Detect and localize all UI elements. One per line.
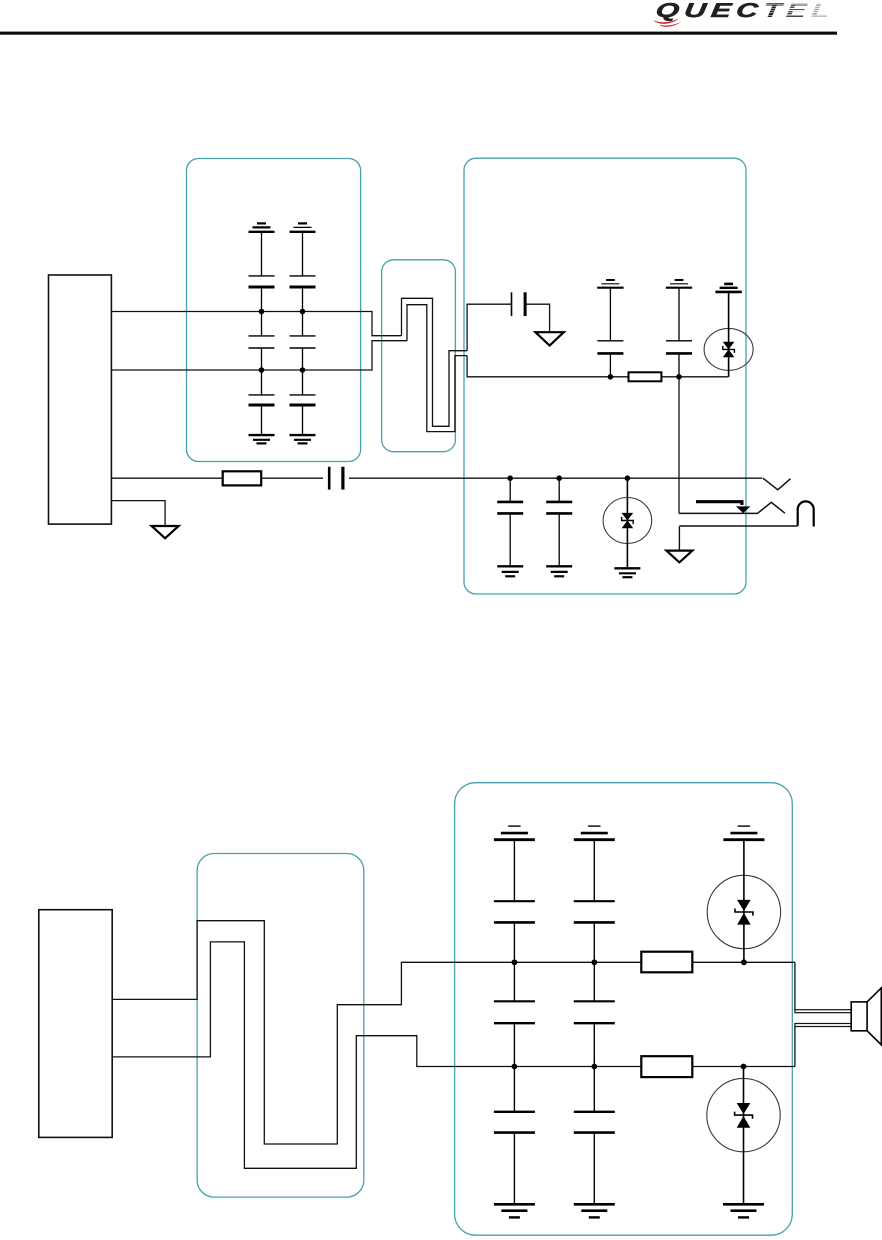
node dot rail4/C14 [512, 1064, 518, 1070]
earphone jack contact (detect) [679, 502, 785, 513]
node dot wire2/col2 [300, 367, 306, 373]
coupling capacitor C7 (series, mic bias) [512, 292, 526, 316]
earphone jack barrel hook [798, 501, 814, 526]
capacitor C5 (bank col2 mid) [290, 312, 316, 371]
region box: differential routing 2 [197, 854, 364, 1198]
power flag above D1 [715, 284, 741, 292]
header horizontal rule [0, 32, 837, 35]
ground under C11 [497, 566, 523, 576]
node dot rail3/C16 [591, 959, 597, 965]
capacitor C11 (rail to gnd) [497, 478, 523, 566]
wire detect line down to jack [678, 377, 680, 513]
earphone jack switch contact (mic) [763, 478, 791, 490]
ground under C6 [290, 435, 316, 443]
power flag above C9 [666, 280, 692, 288]
node dot rail/C9 [676, 374, 682, 380]
ground triangle jack [666, 526, 692, 562]
wire differential trace P [402, 298, 468, 426]
node dot rail4/C17 [591, 1064, 597, 1070]
resistor R3 (upper rail) [641, 952, 692, 973]
earphone jack plug arrow [696, 502, 750, 513]
region box: earphone circuit [464, 158, 746, 594]
capacitor C2 (bank col1 mid) [249, 312, 275, 371]
capacitor C8 (x610 to rail) [597, 288, 623, 377]
module U2 box [39, 910, 112, 1138]
capacitor C15 (col1 bottom) [494, 1067, 535, 1205]
region box: RF bypass capacitor bank [187, 159, 361, 462]
resistor R1 (mic rail) [629, 372, 662, 381]
capacitor C13 (col1 top) [494, 840, 535, 963]
wire from coupling capacitor to ground [525, 304, 550, 332]
capacitor C18 (col2 bottom) [574, 1067, 615, 1205]
ESD diode D1 (upper) [704, 292, 753, 377]
wire SPKP differential trace [112, 921, 795, 1144]
ESD diode D3 (upper) [707, 840, 780, 963]
speaker SPK1 [851, 988, 881, 1045]
node dot rail4/D4 [741, 1064, 747, 1070]
power flag above C8 [597, 280, 623, 288]
ground under D2 [614, 568, 640, 577]
capacitor C6 (bank col2 bottom) [290, 370, 316, 435]
power flag above C1 [249, 223, 275, 231]
node dot wire2/col1 [259, 367, 265, 373]
earphone jack sleeve line [679, 525, 797, 527]
ground triangle under C7 branch [535, 332, 563, 345]
power flag above D3 [723, 826, 764, 840]
logo red swoosh [651, 15, 691, 27]
node dot rail2/C12 [556, 475, 562, 481]
wire SPK1N from module [111, 341, 407, 370]
ground under C15 [494, 1204, 535, 1217]
Quectel logo [654, 2, 882, 22]
ground under C12 [546, 566, 572, 576]
node dot rail3/D3 [741, 959, 747, 965]
resistor R2 (bottom rail) [223, 471, 262, 485]
wire bottom MIC rail [111, 477, 762, 479]
wire SPKN differential trace [112, 942, 795, 1168]
ground under D4 [723, 1204, 764, 1217]
ESD diode D4 (lower) [707, 1067, 780, 1205]
capacitor C14 (col1 mid) [494, 962, 535, 1066]
node dot rail/C8 [608, 374, 614, 380]
node dot rail3/C13 [512, 959, 518, 965]
capacitor C9 (x679 to rail) [666, 288, 692, 377]
ground under C18 [574, 1204, 615, 1217]
ground triangle module [152, 526, 179, 538]
capacitor C1 (bank col1 top) [249, 232, 275, 312]
power flag above C13 [494, 826, 535, 840]
capacitor C4 (bank col2 top) [290, 232, 316, 312]
speaker positive lead [795, 1010, 851, 1013]
speaker negative lead [795, 1024, 851, 1027]
wire audio rail to ESD diode [467, 356, 728, 377]
node dot wire1/col1 [259, 309, 265, 315]
wire module ground stub [111, 501, 165, 526]
wire to coupling capacitor [467, 304, 511, 351]
module U1 box [49, 275, 112, 524]
node dot wire1/col2 [300, 309, 306, 315]
power flag above C16 [574, 826, 615, 840]
capacitor C16 (col2 top) [574, 840, 615, 963]
wire SPK1P from module [111, 312, 401, 336]
capacitor C12 (rail to gnd) [546, 478, 572, 566]
series capacitor C10 (bottom rail) [323, 467, 349, 490]
wire differential trace N [407, 305, 467, 432]
capacitor C17 (col2 mid) [574, 962, 615, 1066]
region box: differential routing [382, 260, 456, 452]
ESD diode D2 (lower) [603, 478, 652, 568]
capacitor C3 (bank col1 bottom) [249, 370, 275, 435]
wire speaker negative lead rise [794, 1027, 796, 1067]
ground under C3 [249, 435, 275, 443]
region box: speaker circuit [455, 783, 793, 1235]
wire speaker positive lead drop [794, 962, 796, 1009]
power flag above C4 [290, 223, 316, 231]
node dot rail2/C11 [507, 475, 513, 481]
resistor R4 (lower rail) [641, 1056, 692, 1077]
node dot rail2/D2 [625, 475, 631, 481]
